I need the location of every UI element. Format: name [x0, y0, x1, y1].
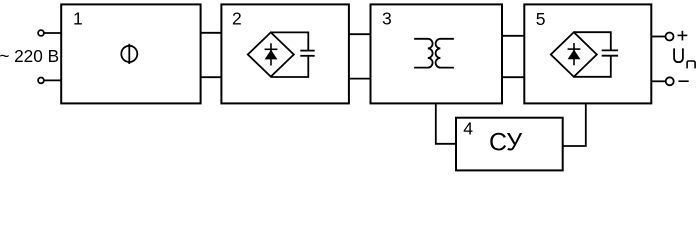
wire 3-5 bottom	[502, 76, 524, 78]
label Un output voltage	[674, 48, 695, 68]
svg-text:СУ: СУ	[489, 129, 522, 157]
block 3 converter	[371, 4, 503, 103]
svg-text:1: 1	[73, 9, 83, 29]
wire input top	[44, 32, 61, 34]
input terminal top	[38, 30, 44, 36]
wire capacitor 2 bottom to bridge	[271, 56, 309, 77]
wire output bottom	[651, 80, 665, 82]
block 2 rectifier	[221, 4, 349, 103]
block 4 control unit	[456, 118, 563, 171]
capacitor C block 5	[602, 50, 618, 55]
wire 3-5 top	[502, 35, 524, 37]
diode inside bridge 5	[568, 43, 581, 65]
wire 1-2 top	[201, 32, 222, 34]
wire capacitor 5 bottom to bridge	[574, 56, 611, 77]
wire 1-2 bottom	[201, 76, 222, 78]
plus sign	[678, 31, 688, 41]
wire block3 to control unit	[436, 103, 456, 143]
block 5 output rectifier	[524, 4, 651, 103]
bridge rectifier diamond block 5	[551, 32, 597, 77]
svg-text:2: 2	[232, 9, 242, 29]
wire block5 to control unit	[563, 103, 586, 146]
minus sign	[678, 80, 688, 82]
diode inside bridge 2	[265, 43, 278, 65]
svg-text:~ 220 В: ~ 220 В	[0, 46, 59, 66]
bridge rectifier diamond block 2	[248, 32, 294, 76]
wire 2-3 top	[349, 33, 371, 35]
wire bridge 5 top to capacitor	[574, 32, 611, 50]
svg-text:3: 3	[382, 9, 392, 29]
output terminal minus	[666, 77, 674, 85]
label F (filter)	[121, 44, 137, 64]
transformer secondary winding	[436, 39, 454, 68]
wire output top	[651, 36, 665, 38]
wire 2-3 bottom	[349, 78, 371, 80]
output terminal plus	[666, 33, 674, 41]
input terminal bottom	[38, 78, 44, 84]
svg-text:4: 4	[463, 118, 473, 138]
wire input bottom	[44, 79, 61, 81]
wire bridge 2 top to capacitor	[271, 32, 309, 50]
transformer primary winding	[414, 39, 432, 68]
block 1 filter	[61, 4, 200, 103]
svg-text:5: 5	[536, 9, 546, 29]
capacitor C block 2	[300, 51, 314, 56]
